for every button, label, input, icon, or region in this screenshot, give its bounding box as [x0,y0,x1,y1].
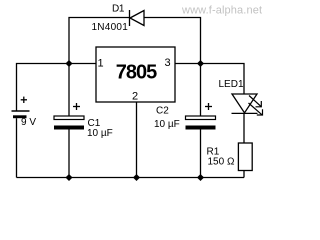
wire pin 3 to right junction [175,63,201,65]
wire LED cathode to R1 [243,113,245,143]
svg-text:10 µF: 10 µF [87,128,113,139]
capacitor C1 [54,103,113,139]
wire left junction down to C1 [68,64,70,117]
node pin2 / bottom rail [133,174,140,181]
wire pin 2 to bottom rail [136,102,138,178]
svg-text:www.f-alpha.net: www.f-alpha.net [181,5,262,17]
regulator U1 7805 [96,47,175,103]
diode D1 [92,4,145,34]
svg-text:10 µF: 10 µF [154,119,180,130]
svg-text:2: 2 [132,91,138,103]
wire right junction to LED branch [201,64,245,95]
node right junction [197,60,204,67]
LED LED1 [219,79,263,115]
wire R1 to bottom rail [243,171,245,178]
resistor R1 [207,143,253,171]
svg-text:LED1: LED1 [219,79,244,90]
node C1 / bottom rail [65,174,72,181]
capacitor C2 [154,103,216,130]
svg-text:9 V: 9 V [21,117,36,128]
wire battery minus to bottom rail [16,118,18,177]
wire C2 to bottom rail [200,130,202,178]
node C2 / bottom rail [197,174,204,181]
wire right junction down to C2 [200,64,202,117]
battery 9V [12,97,37,128]
bottom rail wire [17,177,245,179]
svg-text:C2: C2 [156,106,169,117]
wire left junction to pin 1 [69,63,96,65]
wire C1 to bottom rail [68,130,70,178]
wire top-left: from left junction up and right to diode cathode [69,18,130,64]
svg-text:1: 1 [98,58,104,70]
svg-text:150 Ω: 150 Ω [208,157,235,168]
wire battery to left junction [17,64,70,111]
svg-text:3: 3 [165,57,171,69]
svg-text:7805: 7805 [116,62,157,84]
node left junction [65,60,72,67]
wire top-right: from diode anode to corner and down to right junction [144,18,201,64]
svg-text:1N4001: 1N4001 [92,22,129,33]
svg-text:D1: D1 [112,4,125,15]
